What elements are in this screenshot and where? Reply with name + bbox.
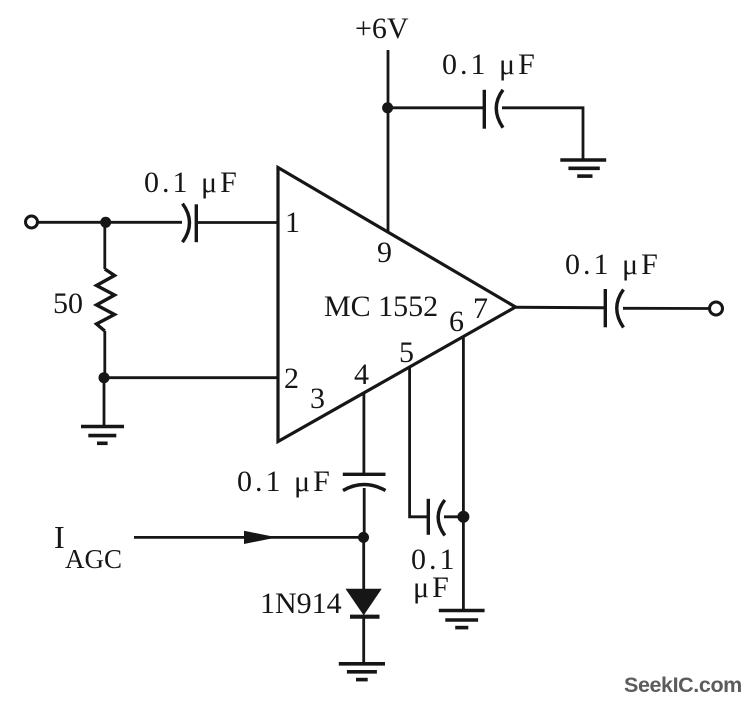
capacitor C2 flat plate <box>483 90 486 129</box>
svg-text:5: 5 <box>399 336 414 369</box>
diode D1 1N914 triangle <box>347 590 380 615</box>
input terminal <box>26 216 38 228</box>
wire node C to bypass capacitor C2 <box>388 106 483 109</box>
ground under resistor R1 <box>81 427 124 444</box>
diode D1 cathode bar <box>350 615 380 619</box>
svg-text:7: 7 <box>473 292 488 325</box>
wire pin 5 down and right to capacitor C5 <box>410 367 427 517</box>
svg-text:1N914: 1N914 <box>260 587 342 620</box>
wire resistor R1 to node B <box>103 331 106 378</box>
svg-text:0.1 μF: 0.1 μF <box>565 248 661 281</box>
svg-text:0.1 μF: 0.1 μF <box>144 166 240 199</box>
capacitor C5 flat plate <box>427 499 430 535</box>
svg-text:4: 4 <box>354 358 369 391</box>
capacitor C1 0.1uF input coupling: curved plate <box>183 204 190 243</box>
svg-text:+6V: +6V <box>355 12 409 45</box>
wire C1 to pin 1 <box>198 221 278 224</box>
resistor R1 50 ohm zigzag <box>97 269 115 331</box>
arrowhead on I AGC wire <box>244 531 277 544</box>
op-amp U1 MC1552 triangle <box>278 168 516 442</box>
wire input terminal to node A <box>38 221 182 224</box>
wire diode D1 to ground <box>362 617 365 664</box>
capacitor C4 curved plate <box>343 485 386 491</box>
svg-text:μF: μF <box>413 571 452 604</box>
svg-text:1: 1 <box>285 206 300 239</box>
wire pin 4 down to capacitor C4 <box>362 393 365 474</box>
svg-text:I: I <box>54 519 65 555</box>
wire capacitor C4 down to node D <box>363 488 366 537</box>
wire node D down to diode D1 <box>362 537 365 590</box>
node C junction dot <box>382 102 393 113</box>
ground under diode D1 <box>339 664 385 680</box>
wire I AGC input to node D <box>134 536 364 539</box>
svg-text:0.1 μF: 0.1 μF <box>237 465 333 498</box>
svg-text:9: 9 <box>377 236 392 269</box>
node A junction dot <box>100 217 111 228</box>
capacitor C2 curved plate <box>496 90 503 128</box>
svg-text:SeekIC.com: SeekIC.com <box>624 673 742 697</box>
wire node B down to ground <box>103 378 106 426</box>
node D junction dot <box>358 532 369 543</box>
svg-text:2: 2 <box>284 362 299 395</box>
capacitor C4 flat plate <box>343 473 386 476</box>
svg-text:0.1 μF: 0.1 μF <box>442 48 538 81</box>
ground at node E <box>439 611 485 628</box>
wire capacitor C2 to ground corner <box>502 108 583 160</box>
node B junction dot <box>99 372 110 383</box>
output terminal <box>710 302 723 315</box>
ground at bypass capacitor C2 <box>560 160 606 176</box>
capacitor C3 flat plate <box>604 289 607 327</box>
wire capacitor C3 to output terminal <box>623 307 709 310</box>
svg-text:AGC: AGC <box>65 544 122 574</box>
capacitor C3 curved plate <box>617 290 624 328</box>
svg-text:MC 1552: MC 1552 <box>324 290 438 323</box>
wire pin 6 down to ground <box>462 336 465 610</box>
svg-text:6: 6 <box>449 305 464 338</box>
wire +6V down to pin 9 <box>387 50 390 232</box>
capacitor C5 curved plate <box>438 500 445 536</box>
node E junction dot <box>457 511 469 523</box>
wire node B to pin 2 <box>104 376 278 379</box>
wire op-amp output pin 7 to capacitor C3 <box>514 306 604 310</box>
svg-text:3: 3 <box>310 382 325 415</box>
capacitor C1 flat plate <box>195 204 198 242</box>
wire capacitor C5 to node E <box>444 515 463 518</box>
svg-text:50: 50 <box>53 287 83 320</box>
wire node A down to resistor R1 <box>103 222 106 269</box>
